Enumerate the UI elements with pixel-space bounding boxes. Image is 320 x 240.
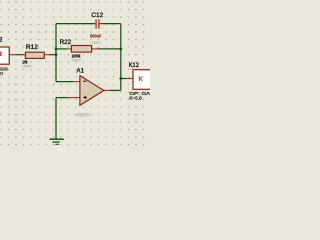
svg-text:<TEXT>: <TEXT> — [72, 57, 82, 62]
block K2 (left, clipped) body — [0, 47, 9, 64]
pin minus input of A1 — [73, 81, 80, 83]
block K2 red letter (clipped sliver) — [0, 52, 2, 57]
wire: output riser right at x=120.8 — [120, 24, 122, 91]
svg-text:R22: R22 — [60, 39, 72, 46]
wire: R12 to input junction — [49, 54, 56, 56]
svg-text:R12: R12 — [26, 44, 39, 51]
plus sign of A1 — [84, 97, 87, 98]
svg-text:50: 50 — [0, 71, 3, 76]
junction dot at R22 tap left — [55, 48, 58, 51]
svg-text:C12: C12 — [91, 12, 103, 19]
svg-text:<TEXT>: <TEXT> — [22, 64, 32, 69]
wire: feedback riser left at x=55.8 — [55, 24, 57, 82]
svg-text:<TEXT>: <TEXT> — [90, 40, 101, 45]
ground bar 3 — [55, 143, 59, 145]
wire: plus input branch — [56, 97, 68, 99]
svg-text:K12: K12 — [129, 62, 140, 69]
svg-text:<TEXT>: <TEXT> — [76, 112, 90, 117]
wire: main input, left block to R12 — [16, 54, 23, 56]
junction dot at output node — [119, 77, 122, 80]
pin output of A1 — [104, 89, 110, 91]
svg-text:K=5.8: K=5.8 — [129, 96, 142, 101]
wire: R22 branch right — [98, 48, 121, 50]
svg-text:500uF: 500uF — [90, 33, 101, 38]
ground bar 2 — [52, 141, 59, 143]
pin left of C12 — [95, 23, 96, 25]
pin of left block — [9, 54, 16, 56]
capacitor C12 plate right — [98, 19, 99, 28]
op-amp A1 body — [80, 76, 104, 106]
svg-text:A1: A1 — [77, 68, 85, 75]
wire: C12 branch right — [100, 23, 120, 25]
junction dot at input node — [55, 53, 58, 56]
minus sign of A1 — [83, 81, 86, 82]
block K12 body — [133, 70, 158, 90]
pin left of R22 — [67, 48, 72, 50]
wire: junction to K12 — [121, 78, 127, 80]
resistor R22 body — [71, 46, 91, 53]
wire: R22 branch left — [56, 48, 67, 50]
pin of K12 block — [126, 78, 133, 80]
pin right of R22 — [92, 48, 98, 50]
wire: minus input branch — [56, 81, 73, 83]
pin plus input of A1 — [68, 97, 80, 99]
wire: ground riser — [55, 98, 57, 139]
pin right of R12 — [44, 54, 49, 56]
ground bar 1 — [50, 138, 64, 140]
schematic background — [0, 0, 150, 150]
wire: C12 branch left — [56, 23, 95, 25]
pin left of R12 — [23, 54, 26, 56]
resistor R12 body — [25, 52, 44, 58]
pin right of C12 — [99, 23, 100, 25]
svg-text:K: K — [139, 76, 144, 83]
wire: op-amp output to riser — [110, 89, 121, 91]
capacitor C12 plate left — [95, 19, 96, 28]
junction dot at R22 tap right — [119, 48, 122, 51]
